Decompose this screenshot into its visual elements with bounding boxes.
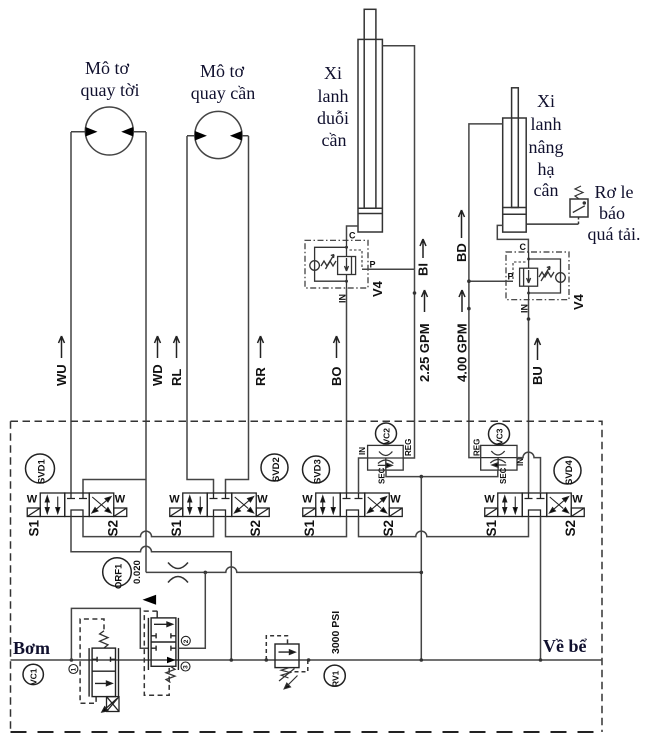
svg-text:C: C [349,231,356,241]
junction dots main line [70,658,543,662]
svg-text:SVD2: SVD2 [271,457,282,482]
label 3000 PSI [330,611,342,654]
wire RR (motor2 right to SVD2 B) [226,136,249,493]
SEC line VC2 to VC3 [386,470,498,477]
svg-text:Rơ le: Rơ le [594,182,633,202]
wire CYL1 bottom C to V4A [347,226,359,240]
svg-text:lanh: lanh [318,86,349,106]
label BD with arrow [454,243,469,262]
relief valve RV1 body [275,644,299,668]
svg-text:IN: IN [516,458,525,466]
label IN (V4A) [338,294,348,303]
counterbalance valve V4B outer box [506,252,569,300]
svg-text:VC2: VC2 [382,428,392,445]
junction dot BD [467,307,471,311]
svg-text:VC1: VC1 [29,668,39,685]
label 2.25 GPM with arrow [417,323,432,382]
svg-text:0.020: 0.020 [132,560,143,584]
label WU with arrow [54,364,69,386]
label C (V4A) [349,231,356,241]
flow regulator VC3 box [481,445,517,470]
wire RL (motor2 left to SVD2 A) [187,136,214,493]
svg-text:RL: RL [169,369,184,386]
junction dot SEC [420,475,424,479]
flow regulator VC2 box [368,445,404,470]
label Mô tơ quay tời [80,58,139,100]
bus A segment SVD2-SVD3 [226,517,347,537]
cylinder CYL2 (nâng hạ cân) rod [512,88,519,208]
svg-text:cần: cần [322,130,347,150]
svg-text:SVD3: SVD3 [313,459,324,484]
label RL with arrow [169,369,184,386]
pilot line to valve2 [71,608,148,660]
svg-text:V4: V4 [370,280,385,297]
svg-text:báo: báo [599,203,625,223]
wire CYL2 top to BD line [469,124,503,281]
label P (V4A) [370,260,376,270]
svg-text:3: 3 [183,665,190,669]
label Mô tơ quay cần [191,61,255,103]
svg-text:Xi: Xi [537,91,555,111]
V4A inner circuit [310,240,362,288]
label circle VC3 [489,424,510,445]
cylinder CYL1 (duỗi cần) rod [364,9,376,208]
orifice line (hops riser) [146,567,421,573]
label circle RV1 [324,665,345,686]
svg-text:2: 2 [183,639,190,643]
pressure switch PS (relay) box [570,199,588,217]
V4B inner circuit [513,252,565,300]
V4A P port line [362,268,415,270]
svg-text:3000 PSI: 3000 PSI [330,611,342,654]
relief valve RV1 dashed pilot [266,636,287,660]
pressure switch contact [573,202,586,213]
manifold enclosure dashed box [11,421,603,732]
SEC riser to pump line [420,477,422,660]
svg-text:Về bể: Về bể [543,636,587,656]
svg-text:VC3: VC3 [495,428,505,445]
circled port 2 [181,636,190,645]
PV2 spring below [166,666,175,682]
label BO with arrow [329,367,344,387]
svg-text:RV1: RV1 [331,670,341,687]
svg-text:SVD4: SVD4 [564,459,575,485]
wire WD (motor1 right down to orifice) [145,132,147,572]
VC3 IN wire to SVD4 (hops BU) [517,452,541,493]
junction dot BU [527,317,531,321]
bus A segment SVD1-SVD2 (hops WD) [83,517,214,537]
svg-text:quá tải.: quá tải. [588,224,641,244]
label Xi lanh nâng hạ cân [529,91,564,200]
svg-text:P: P [370,260,376,270]
wire WU (motor1 left to SVD1 A) [70,132,72,493]
cylinder CYL1 barrel [358,39,382,232]
svg-text:2.25 GPM: 2.25 GPM [417,323,432,382]
svg-text:IN: IN [358,447,367,455]
valve SVD3 [302,493,403,537]
label circle SVD3 [303,456,330,483]
VC3 labels [473,439,526,484]
junction dot BI [413,291,417,295]
wire BU (V4B IN to SVD4 A) [528,300,530,493]
svg-text:C: C [520,242,527,252]
svg-text:REG: REG [404,439,413,456]
circled port 3 [181,662,190,671]
valve SVD2 [169,493,270,537]
riser orifice line to PV2 [178,572,205,648]
valve SVD1 [26,493,127,537]
svg-text:BU: BU [530,366,545,385]
circled port 1 [69,665,78,674]
svg-text:WU: WU [54,364,69,386]
bus A segment SVD3-SVD4 (hops SEC riser) [359,517,529,537]
svg-text:quay tời: quay tời [80,80,139,100]
V4B P port line [469,280,513,282]
label circle SVD2 [261,454,288,481]
svg-text:cân: cân [534,180,559,200]
cylinder CYL2 barrel [503,118,527,232]
svg-text:4.00 GPM: 4.00 GPM [455,323,470,382]
PV1 drain X-box [102,697,119,712]
label circle SVD1 [26,454,55,483]
wire CYL1 top to BI line [382,46,414,269]
label Xi lanh duỗi cần [317,63,349,150]
motor M2 (quay cần) [187,111,249,158]
RV1 spring and vent arrows [279,668,298,689]
svg-text:P: P [508,272,514,282]
cylinder CYL1 piston [358,208,382,213]
compensator valve PV1 spring [100,631,108,648]
svg-text:BD: BD [454,243,469,262]
label 0.020 [132,560,143,584]
svg-text:1: 1 [71,667,78,671]
svg-text:Mô tơ: Mô tơ [85,58,130,78]
label V4 (V4A) [370,280,385,297]
wire BI (to VC2 REG) [403,269,414,458]
label Về bể [543,636,587,656]
junction dot orifice-SEC riser [420,571,424,575]
bus B SVD1 to pump riser (hops WD) [71,517,231,661]
label BU with arrow [530,366,545,385]
svg-text:SEC: SEC [378,467,387,484]
valve SVD4 [484,493,585,537]
SVD4 T-port drop to pump line [540,517,542,661]
wire BD (to VC3 REG) [469,281,481,457]
junction dot orifice-riser [204,571,208,575]
svg-text:BI: BI [416,263,431,276]
label P (V4B) [508,272,514,282]
unloader valve PV2 dashed box [144,611,169,695]
svg-text:V4: V4 [571,293,586,310]
svg-text:duỗi: duỗi [317,108,349,128]
svg-text:REG: REG [473,439,482,456]
pump flow triangle [143,595,157,605]
svg-text:SEC: SEC [499,467,508,484]
VC2 labels [358,439,413,484]
label BI with arrow [416,263,431,276]
label circle VC1 [23,664,43,684]
label C (V4B) [520,242,527,252]
svg-text:SVD1: SVD1 [37,458,48,484]
label circle ORF1 [103,558,132,587]
wire relay to cylinder2 [578,217,580,224]
cylinder CYL2 piston [503,208,527,215]
label RR with arrow [253,367,268,386]
wire SVD1 B to WD [83,480,146,494]
label 4.00 GPM with arrow [455,323,470,382]
svg-text:BO: BO [329,367,344,387]
label circle VC2 [376,423,397,444]
svg-text:lanh: lanh [531,114,562,134]
wire BO (V4A IN to SVD3 A) [346,288,348,493]
svg-text:hạ: hạ [538,159,555,179]
junction dot BD-P [467,279,471,283]
compensator valve PV1 dashed box [80,619,104,703]
svg-text:Xi: Xi [324,63,342,83]
VC2 IN wire to SVD3 [359,458,368,493]
svg-text:Bơm: Bơm [13,638,50,658]
svg-text:ORF1: ORF1 [114,563,125,589]
pump main line [11,659,603,661]
compensator valve PV1 body [89,648,118,697]
svg-text:RR: RR [253,367,268,386]
unloader valve PV2 body [148,618,178,670]
svg-text:WD: WD [150,364,165,386]
counterbalance valve V4A outer box [305,240,368,288]
label WD with arrow [150,364,165,386]
label circle SVD4 [554,457,581,484]
label Rơ le báo quá tải [588,182,641,244]
label Bơm [13,638,50,658]
orifice ORF1 symbol [168,563,188,583]
label V4 (V4B) [571,293,586,310]
svg-text:quay cần: quay cần [191,83,255,103]
motor M1 (quay tời) [71,107,146,155]
label IN (V4B) [520,304,530,313]
pressure switch spring [575,186,583,199]
wire CYL2 bottom C to V4B [497,225,528,252]
svg-text:nâng: nâng [529,137,564,157]
svg-text:Mô tơ: Mô tơ [200,61,245,81]
